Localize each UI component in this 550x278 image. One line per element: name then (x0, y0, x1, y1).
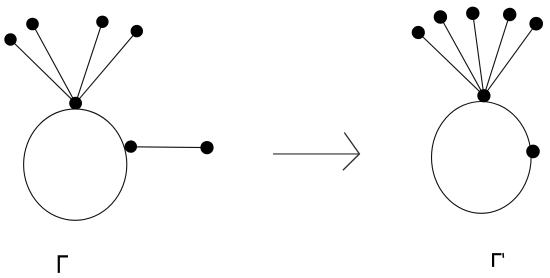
left graph: edge from leaf 2 to top vertex (33, 24, 76, 103)
left graph: edge from leaf 1 to top vertex (11, 40, 76, 104)
right graph: leaf vertex 2 (434, 10, 447, 23)
right graph: edge from leaf 5 to top vertex (484, 24, 536, 96)
arrow head (343, 133, 360, 171)
right graph: top vertex on loop (477, 89, 490, 102)
right graph: edge from leaf 3 to top vertex (473, 13, 484, 95)
right graph: edge from leaf 4 to top vertex (484, 15, 510, 96)
right graph: edge from leaf 1 to top vertex (418, 33, 484, 96)
right graph: edge from leaf 2 to top vertex (440, 17, 484, 96)
right graph: leaf vertex 1 (412, 26, 425, 39)
label Gamma (left) (59, 256, 68, 273)
left graph: leaf vertex 1 (4, 33, 16, 45)
left graph: top vertex on loop (69, 97, 82, 110)
right graph: side vertex on loop (526, 145, 540, 159)
left graph: edge from leaf 3 to top vertex (76, 22, 103, 103)
left graph: pendant edge from right vertex to leaf (131, 146, 207, 149)
prime tick of Gamma prime (502, 253, 504, 258)
left graph: leaf vertex 4 (131, 25, 143, 37)
right graph: loop circle (432, 101, 532, 213)
left graph: leaf vertex 3 (96, 16, 108, 28)
left graph: edge from leaf 4 to top vertex (76, 31, 137, 103)
left graph: loop circle (24, 109, 127, 220)
arrow shaft (273, 153, 359, 155)
left graph: leaf vertex 2 (26, 18, 39, 31)
left graph: right vertex on loop (125, 140, 137, 152)
right graph: leaf vertex 4 (503, 8, 516, 21)
right graph: leaf vertex 5 (529, 17, 543, 31)
label Gamma prime (right) (493, 254, 501, 267)
right graph: leaf vertex 3 (466, 7, 479, 20)
left graph: pendant leaf vertex (200, 141, 213, 154)
